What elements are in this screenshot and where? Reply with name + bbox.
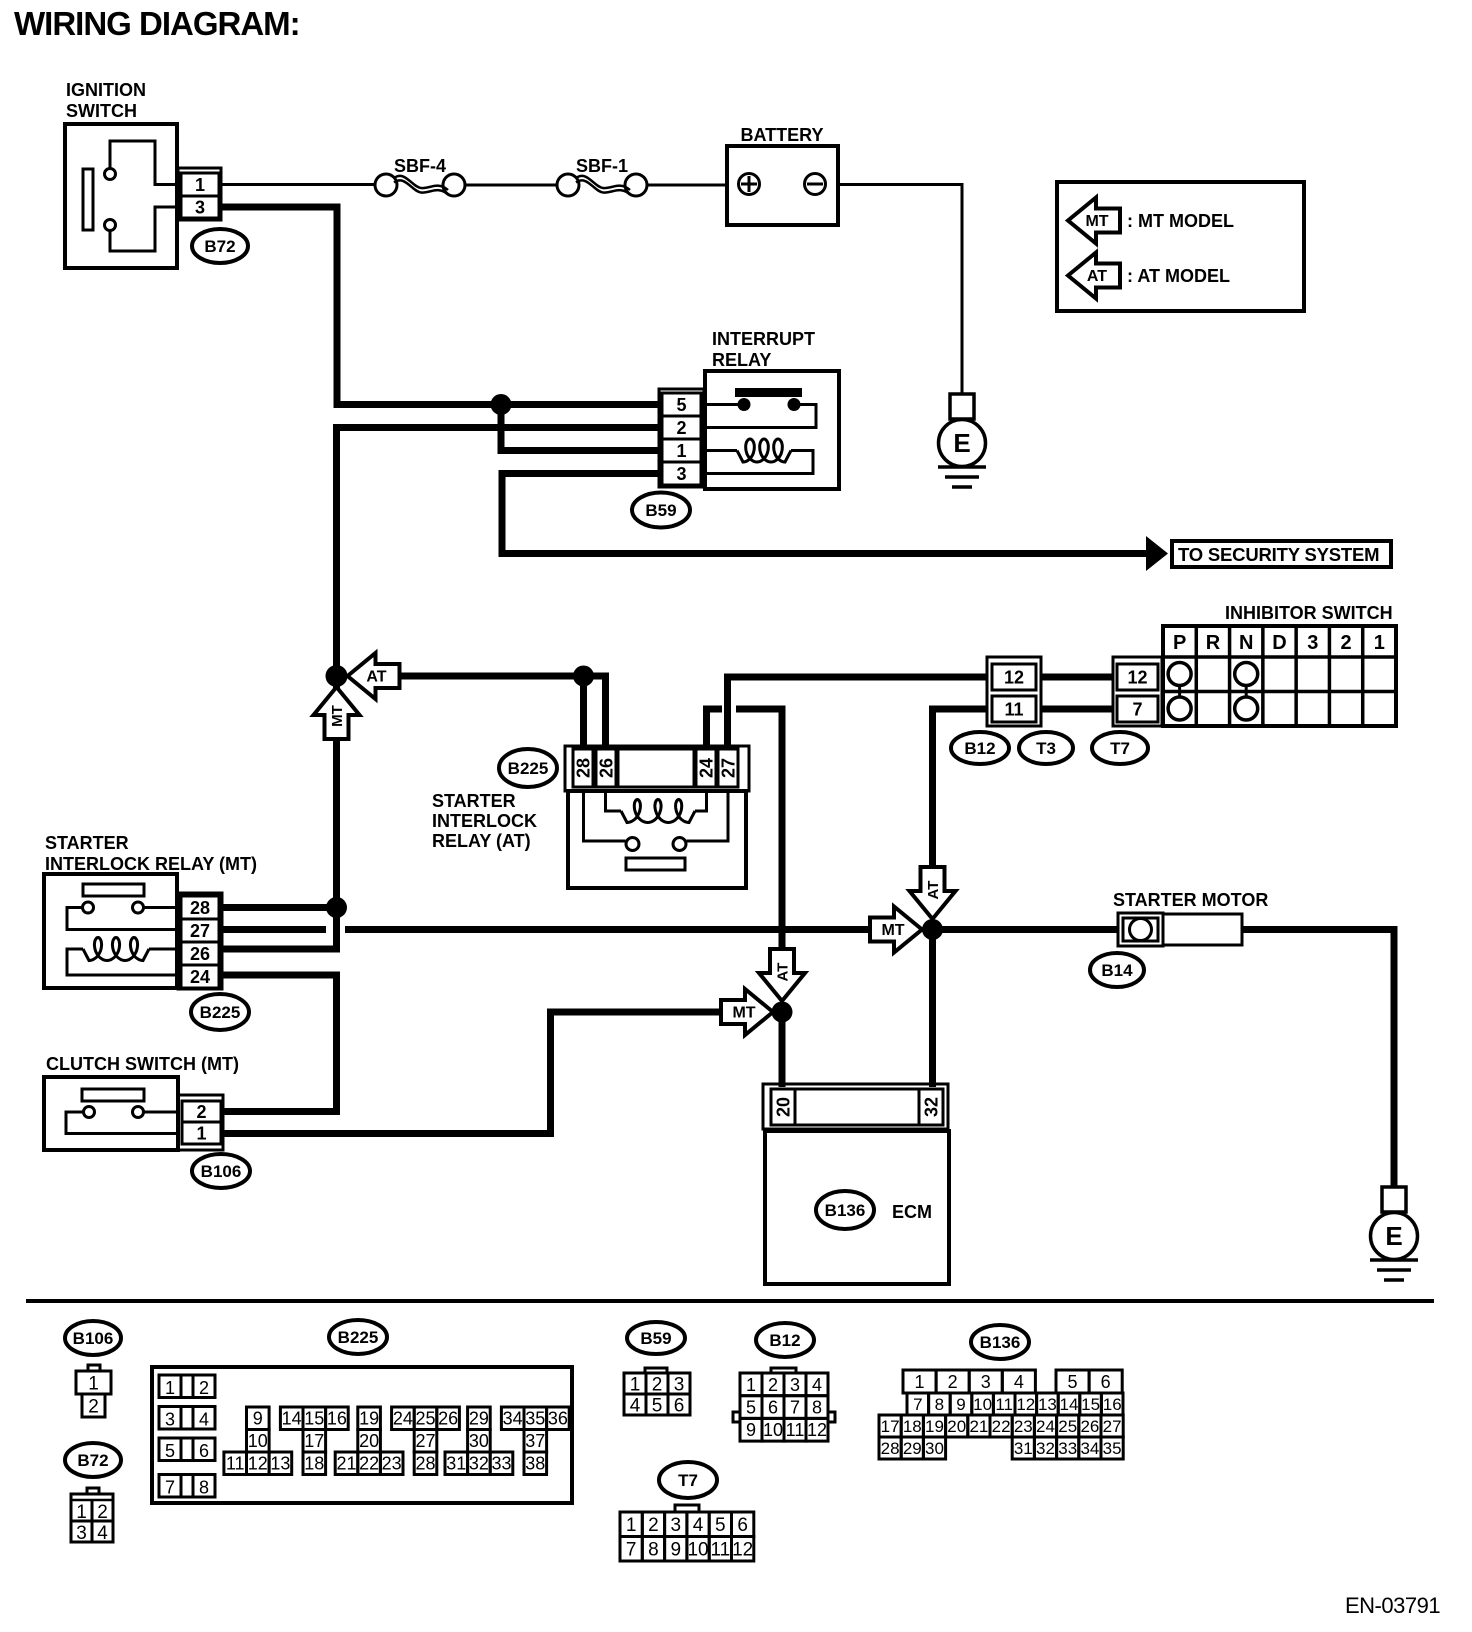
wire SBF-4 to SBF-1 [465, 184, 557, 187]
clutch switch body [44, 1077, 178, 1150]
svg-text:2: 2 [648, 1515, 659, 1536]
svg-text:31: 31 [1014, 1439, 1033, 1458]
svg-text:RELAY: RELAY [712, 350, 771, 370]
svg-text:: AT MODEL: : AT MODEL [1127, 266, 1230, 286]
svg-text:13: 13 [1038, 1395, 1057, 1414]
svg-text:B106: B106 [73, 1329, 114, 1348]
svg-text:9: 9 [746, 1420, 756, 1440]
svg-text:26: 26 [596, 758, 616, 778]
svg-text:3: 3 [981, 1372, 991, 1392]
AT model arrow (ECM pin20 feed) [759, 949, 805, 1001]
wire relay(MT) pin28 to junction [222, 904, 337, 911]
svg-text:5: 5 [652, 1395, 663, 1416]
svg-text:8: 8 [935, 1395, 944, 1414]
svg-text:7: 7 [626, 1540, 637, 1561]
junction node (pin5 feed) [491, 394, 512, 415]
svg-text:: MT MODEL: : MT MODEL [1127, 211, 1234, 231]
wire AT arrow to relay(AT) pin26 [399, 676, 606, 750]
svg-text:D: D [1272, 632, 1286, 654]
svg-text:37: 37 [525, 1431, 545, 1451]
svg-text:27: 27 [718, 758, 738, 778]
connector label B225 (AT relay) [499, 749, 557, 787]
svg-text:AT: AT [925, 881, 942, 900]
pinout B59 [624, 1368, 690, 1416]
svg-text:5: 5 [715, 1515, 726, 1536]
separator line [26, 1299, 1434, 1303]
svg-text:5: 5 [1068, 1372, 1078, 1392]
svg-text:21: 21 [969, 1417, 988, 1436]
svg-text:34: 34 [503, 1409, 523, 1429]
wire B12 pin11 down to AT arrow [933, 709, 988, 869]
svg-text:T3: T3 [1036, 739, 1056, 758]
svg-text:STARTER MOTOR: STARTER MOTOR [1113, 890, 1268, 910]
svg-text:1: 1 [630, 1374, 641, 1395]
svg-text:27: 27 [415, 1431, 435, 1451]
svg-text:3: 3 [1307, 632, 1318, 654]
pinout B106 [76, 1365, 111, 1417]
svg-text:B225: B225 [200, 1003, 241, 1022]
svg-text:1: 1 [626, 1515, 637, 1536]
svg-text:7: 7 [1132, 699, 1142, 719]
svg-text:INTERLOCK RELAY (MT): INTERLOCK RELAY (MT) [45, 854, 257, 874]
svg-text:28: 28 [881, 1439, 900, 1458]
pinout label T7 [659, 1462, 717, 1498]
svg-text:3: 3 [670, 1515, 681, 1536]
svg-text:2: 2 [768, 1375, 778, 1395]
svg-text:22: 22 [359, 1454, 379, 1474]
svg-text:6: 6 [737, 1515, 748, 1536]
svg-text:29: 29 [903, 1439, 922, 1458]
svg-text:B225: B225 [508, 759, 549, 778]
ground E (starter motor) [1370, 1187, 1418, 1280]
pinout T7 [620, 1505, 754, 1561]
wire relay(MT) pin24 to clutch switch pin2 [222, 975, 337, 1112]
svg-text:T7: T7 [1110, 739, 1130, 758]
legend box [1057, 182, 1304, 311]
svg-text:MT: MT [1085, 213, 1108, 230]
svg-text:6: 6 [768, 1398, 778, 1418]
svg-text:2: 2 [1341, 632, 1352, 654]
svg-text:26: 26 [438, 1409, 458, 1429]
wire junction down to relay(MT) pin26 [222, 908, 337, 950]
fuse SBF-1 [557, 156, 647, 196]
svg-text:T7: T7 [678, 1471, 698, 1490]
svg-text:E: E [953, 428, 970, 458]
svg-text:AT: AT [1087, 268, 1107, 285]
svg-text:24: 24 [696, 758, 716, 778]
svg-text:24: 24 [1036, 1417, 1055, 1436]
svg-text:B72: B72 [77, 1451, 108, 1470]
svg-text:19: 19 [359, 1409, 379, 1429]
svg-text:33: 33 [1058, 1439, 1077, 1458]
svg-text:3: 3 [195, 197, 205, 217]
svg-text:4: 4 [199, 1410, 209, 1430]
svg-text:25: 25 [415, 1409, 435, 1429]
ignition switch SW [65, 124, 178, 268]
svg-text:INTERRUPT: INTERRUPT [712, 329, 815, 349]
svg-text:11: 11 [995, 1395, 1013, 1414]
svg-text:B106: B106 [201, 1162, 242, 1181]
svg-text:4: 4 [693, 1515, 704, 1536]
svg-text:24: 24 [190, 967, 210, 987]
svg-text:17: 17 [304, 1431, 324, 1451]
svg-text:23: 23 [382, 1454, 402, 1474]
MT model arrow (ECM pin20 feed) [721, 989, 773, 1035]
svg-text:2: 2 [652, 1374, 663, 1395]
svg-text:B136: B136 [825, 1201, 866, 1220]
svg-text:36: 36 [548, 1409, 568, 1429]
svg-text:10: 10 [687, 1540, 708, 1561]
svg-text:3: 3 [674, 1374, 685, 1395]
svg-text:TO SECURITY SYSTEM: TO SECURITY SYSTEM [1178, 544, 1379, 565]
svg-text:29: 29 [469, 1409, 489, 1429]
svg-text:BATTERY: BATTERY [741, 125, 824, 145]
wire B12-11 to T7-7 [1041, 706, 1113, 713]
svg-text:2: 2 [196, 1102, 206, 1122]
svg-text:N: N [1239, 632, 1253, 654]
svg-text:18: 18 [903, 1417, 922, 1436]
svg-text:1: 1 [195, 175, 205, 195]
svg-text:32: 32 [1036, 1439, 1055, 1458]
svg-text:6: 6 [1101, 1372, 1111, 1392]
ECM connector pins 20,32 [763, 1084, 948, 1129]
wire ignition pin1 to SBF-4 [221, 183, 375, 186]
svg-text:MT: MT [881, 922, 904, 939]
svg-text:20: 20 [947, 1417, 966, 1436]
svg-text:10: 10 [973, 1395, 992, 1414]
wire relay(MT) pin27 toward starter motor (left of crossing) [222, 926, 326, 933]
svg-text:AT: AT [775, 963, 792, 982]
arrowhead to security system [1146, 536, 1168, 571]
svg-text:34: 34 [1080, 1439, 1099, 1458]
svg-text:3: 3 [790, 1375, 800, 1395]
svg-text:1: 1 [196, 1123, 206, 1143]
svg-text:1: 1 [88, 1373, 99, 1394]
svg-text:B72: B72 [204, 237, 235, 256]
svg-text:30: 30 [925, 1439, 944, 1458]
connector label B225 (MT relay) [191, 994, 249, 1030]
svg-text:16: 16 [1103, 1395, 1122, 1414]
connector B12/T3 pins 12,11 [987, 657, 1041, 726]
pinout label B72 [65, 1443, 121, 1477]
svg-text:2: 2 [676, 418, 686, 438]
connector T7 pins 12,7 [1113, 657, 1162, 726]
svg-text:6: 6 [674, 1395, 685, 1416]
svg-text:19: 19 [925, 1417, 944, 1436]
wire junction to interrupt relay pin1 [501, 405, 659, 451]
svg-text:2: 2 [97, 1502, 108, 1523]
connector label T7 [1092, 732, 1148, 764]
svg-text:8: 8 [199, 1478, 209, 1498]
svg-text:9: 9 [253, 1409, 263, 1429]
junction node (pin28 branch) [573, 666, 594, 687]
svg-text:12: 12 [1127, 667, 1147, 687]
wire ignition pin3 to interrupt relay pin5 [221, 207, 659, 405]
svg-text:30: 30 [469, 1431, 489, 1451]
pinout B225 [152, 1367, 572, 1503]
interrupt relay connector B59 pins 5,2,1,3 [659, 389, 704, 487]
junction node on main vertical [326, 665, 348, 687]
starter interlock relay (MT) body [44, 874, 178, 988]
svg-text:5: 5 [165, 1441, 175, 1461]
ground E (battery) [938, 394, 986, 487]
fuse SBF-4 [375, 156, 465, 196]
svg-text:1: 1 [165, 1378, 175, 1398]
svg-text:3: 3 [165, 1410, 175, 1430]
svg-text:11: 11 [710, 1540, 730, 1561]
battery [727, 146, 838, 225]
svg-text:28: 28 [573, 758, 593, 778]
svg-text:INHIBITOR SWITCH: INHIBITOR SWITCH [1225, 603, 1393, 623]
MT model arrow (main vertical) [314, 687, 360, 739]
pinout label B59 [627, 1322, 685, 1354]
junction node (ECM pin20 feed) [772, 1002, 793, 1023]
pinout label B225 [329, 1320, 387, 1354]
connector label B14 [1090, 953, 1144, 987]
svg-text:26: 26 [190, 944, 210, 964]
svg-text:3: 3 [76, 1523, 87, 1544]
inhibitor switch table [1163, 626, 1396, 726]
wire interrupt relay pin3 to security system [502, 474, 1146, 554]
svg-text:24: 24 [393, 1409, 413, 1429]
svg-text:11: 11 [1004, 699, 1023, 719]
svg-text:35: 35 [525, 1409, 545, 1429]
svg-text:5: 5 [676, 395, 686, 415]
svg-text:ECM: ECM [892, 1202, 932, 1222]
interrupt relay body [704, 371, 839, 489]
svg-text:INTERLOCK: INTERLOCK [432, 811, 537, 831]
AT model arrow (starter junction feed) [910, 867, 956, 919]
svg-text:9: 9 [956, 1395, 965, 1414]
svg-text:8: 8 [812, 1398, 822, 1418]
svg-text:B59: B59 [640, 1329, 671, 1348]
svg-text:23: 23 [1014, 1417, 1033, 1436]
wire interrupt relay pin2 down to MT circuit [337, 428, 660, 908]
svg-text:9: 9 [670, 1540, 681, 1561]
svg-text:12: 12 [248, 1454, 268, 1474]
starter interlock relay (MT) connector pins 28,27,26,24 [178, 893, 222, 989]
svg-text:27: 27 [1103, 1417, 1122, 1436]
pinout B72 [71, 1488, 113, 1544]
svg-text:CLUTCH SWITCH (MT): CLUTCH SWITCH (MT) [46, 1054, 239, 1074]
svg-text:35: 35 [1103, 1439, 1122, 1458]
connector label B72 [192, 229, 248, 263]
connector label B59 [632, 493, 690, 528]
svg-text:20: 20 [359, 1431, 379, 1451]
svg-text:21: 21 [336, 1454, 356, 1474]
svg-text:20: 20 [773, 1097, 793, 1117]
connector B72 pins 1,3 [178, 168, 221, 220]
svg-text:MT: MT [732, 1005, 755, 1022]
svg-text:2: 2 [948, 1372, 958, 1392]
pinout label B12 [756, 1323, 814, 1357]
svg-text:26: 26 [1080, 1417, 1099, 1436]
svg-text:4: 4 [812, 1375, 822, 1395]
wire junction to relay(AT) pin28 [580, 676, 587, 750]
wire relay(AT) pin24 toward ECM [707, 709, 723, 750]
svg-text:1: 1 [1374, 632, 1385, 654]
svg-text:22: 22 [992, 1417, 1011, 1436]
svg-text:11: 11 [226, 1454, 245, 1474]
svg-text:27: 27 [190, 921, 210, 941]
svg-text:SBF-4: SBF-4 [394, 156, 446, 176]
svg-text:7: 7 [790, 1398, 800, 1418]
svg-text:B14: B14 [1101, 961, 1133, 980]
clutch switch connector pins 2,1 [178, 1095, 223, 1150]
svg-text:2: 2 [88, 1396, 99, 1417]
starter interlock relay (AT) connector pins 28,26,24,27 [565, 746, 749, 791]
svg-text:6: 6 [199, 1441, 209, 1461]
svg-text:EN-03791: EN-03791 [1345, 1593, 1440, 1618]
AT model arrow (interlock relay AT feed) [348, 653, 400, 699]
connector label T3 [1019, 732, 1073, 764]
svg-text:IGNITION: IGNITION [66, 80, 146, 100]
wire junction down to ECM pin20 [779, 1012, 786, 1087]
svg-text:4: 4 [1014, 1372, 1024, 1392]
svg-text:5: 5 [746, 1398, 756, 1418]
svg-text:STARTER: STARTER [45, 833, 129, 853]
wire relay(MT) pin27 toward starter motor (right of crossing) [345, 926, 872, 933]
svg-text:17: 17 [881, 1417, 900, 1436]
svg-text:7: 7 [913, 1395, 922, 1414]
svg-text:B59: B59 [645, 501, 676, 520]
svg-text:28: 28 [415, 1454, 435, 1474]
svg-text:AT: AT [366, 669, 386, 686]
wire B12-12 to T7-12 [1041, 674, 1113, 681]
starter interlock relay (AT) body [568, 791, 746, 888]
svg-text:1: 1 [746, 1375, 756, 1395]
TO SECURITY SYSTEM box [1172, 541, 1391, 567]
svg-text:31: 31 [446, 1454, 466, 1474]
svg-text:28: 28 [190, 898, 210, 918]
pinout B136 [879, 1370, 1123, 1459]
svg-text:P: P [1173, 632, 1186, 654]
svg-text:25: 25 [1058, 1417, 1077, 1436]
svg-text:14: 14 [282, 1409, 302, 1429]
svg-text:3: 3 [676, 464, 686, 484]
svg-text:E: E [1385, 1221, 1402, 1251]
svg-text:10: 10 [763, 1420, 783, 1440]
svg-text:WIRING DIAGRAM:: WIRING DIAGRAM: [14, 5, 300, 42]
pinout label B106 [65, 1321, 121, 1355]
svg-text:SBF-1: SBF-1 [576, 156, 628, 176]
svg-text:12: 12 [1016, 1395, 1035, 1414]
wire clutch pin1 to MT arrow (ECM feed) [223, 1012, 730, 1134]
svg-text:15: 15 [304, 1409, 324, 1429]
svg-text:SWITCH: SWITCH [66, 101, 137, 121]
pinout label B136 [971, 1325, 1029, 1359]
svg-text:1: 1 [76, 1502, 87, 1523]
svg-text:15: 15 [1081, 1395, 1100, 1414]
connector label B106 (clutch) [192, 1154, 250, 1188]
wire starter motor to ground E [1242, 930, 1394, 1188]
wire relay(AT) pin27 to B12 pin12 [728, 677, 988, 750]
svg-text:4: 4 [97, 1523, 108, 1544]
svg-text:1: 1 [676, 441, 686, 461]
svg-text:7: 7 [165, 1478, 175, 1498]
svg-text:14: 14 [1060, 1395, 1079, 1414]
svg-text:2: 2 [199, 1378, 209, 1398]
svg-text:32: 32 [921, 1097, 941, 1117]
svg-text:12: 12 [732, 1540, 753, 1561]
wire relay(AT) pin24 to AT arrow (crossing gap) [736, 709, 782, 951]
connector label B12 [951, 732, 1009, 764]
wire battery to ground E [838, 185, 962, 395]
svg-text:B12: B12 [769, 1331, 800, 1350]
svg-text:38: 38 [525, 1454, 545, 1474]
wire SBF-1 to battery [647, 184, 727, 187]
svg-text:12: 12 [807, 1420, 827, 1440]
svg-text:1: 1 [915, 1372, 925, 1392]
wire junction to starter motor [933, 926, 1119, 933]
svg-text:33: 33 [491, 1454, 511, 1474]
svg-text:MT: MT [329, 705, 346, 727]
ECM body [765, 1131, 949, 1284]
svg-text:32: 32 [469, 1454, 489, 1474]
svg-text:16: 16 [327, 1409, 347, 1429]
legend MT arrow [1068, 198, 1120, 244]
svg-text:13: 13 [270, 1454, 290, 1474]
MT model arrow (starter junction feed) [870, 907, 922, 953]
wire junction down to ECM pin32 [929, 930, 936, 1088]
connector label B136 (ECM) [816, 1191, 874, 1229]
svg-text:10: 10 [248, 1431, 268, 1451]
svg-text:8: 8 [648, 1540, 659, 1561]
svg-text:STARTER: STARTER [432, 791, 516, 811]
svg-text:R: R [1206, 632, 1221, 654]
junction node (starter motor feed) [922, 919, 943, 940]
svg-text:12: 12 [1004, 667, 1024, 687]
svg-text:11: 11 [786, 1420, 805, 1440]
svg-text:B225: B225 [338, 1328, 379, 1347]
svg-text:B12: B12 [964, 739, 995, 758]
junction node (MT relay pin28) [326, 897, 347, 918]
svg-text:18: 18 [304, 1454, 324, 1474]
starter motor [1118, 913, 1242, 946]
svg-text:B136: B136 [980, 1333, 1021, 1352]
svg-text:RELAY (AT): RELAY (AT) [432, 831, 531, 851]
svg-text:4: 4 [630, 1395, 641, 1416]
legend AT arrow [1068, 253, 1120, 299]
pinout B12 [733, 1368, 835, 1441]
